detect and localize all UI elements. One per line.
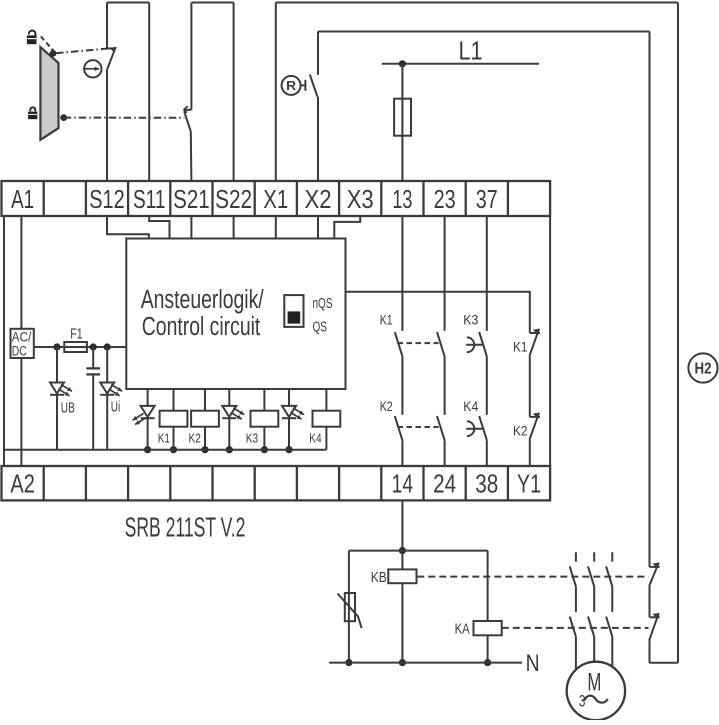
- svg-text:UB: UB: [61, 401, 75, 417]
- wire branch horizontal: [349, 550, 488, 552]
- varistor RV1: [338, 593, 362, 628]
- module outline right edge: [549, 216, 551, 466]
- svg-text:Ansteuerlogik/: Ansteuerlogik/: [141, 286, 265, 314]
- svg-text:L1: L1: [459, 38, 483, 66]
- wire S22: [233, 3, 235, 182]
- contact KB phase 1 (NO): [570, 566, 576, 586]
- contactor coil KA: [474, 621, 502, 635]
- junction L1/fuse: [399, 60, 406, 67]
- svg-text:K1: K1: [513, 339, 528, 355]
- contact KB phase 2 (NO): [588, 566, 594, 586]
- contact K2 (NC feedback): [530, 413, 541, 440]
- contactor coil KB: [388, 569, 416, 583]
- label K4: [463, 398, 478, 414]
- guard door (movable gate, grey panel): [40, 47, 58, 140]
- label K3: [463, 312, 478, 328]
- wire KA upper lead: [487, 551, 489, 621]
- switch R contact arm: [310, 75, 318, 97]
- wire logic box to coil K3: [263, 389, 265, 411]
- svg-text:AC/: AC/: [12, 330, 32, 345]
- svg-text:X3: X3: [347, 184, 374, 214]
- wire KB to N rail: [401, 583, 403, 662]
- wire S21-S22 top loop: [191, 2, 233, 4]
- wire capacitor to 0V rail: [92, 374, 94, 449]
- wire LED to 0V rail at x=147.6: [147, 418, 149, 450]
- wire KB upper lead: [401, 551, 403, 570]
- svg-text:14: 14: [392, 469, 414, 499]
- wire phase 3 between contacts: [611, 586, 613, 612]
- wire between contacts column 37: [486, 356, 488, 415]
- wire inner loop right side (to KB aux contact): [649, 32, 651, 567]
- actuator direction symbol (circled arrow): [84, 60, 102, 77]
- door hinge point bottom: [60, 114, 67, 121]
- svg-text:K1: K1: [158, 431, 170, 446]
- label UB: [61, 401, 75, 417]
- junction UB branch: [53, 343, 60, 350]
- wire fuse through lead: [401, 99, 403, 181]
- relay coil K3: [251, 411, 279, 427]
- label K1: [380, 312, 393, 328]
- svg-text:K4: K4: [463, 398, 478, 414]
- wire Ui to 0V rail: [106, 395, 108, 450]
- linkage dash-dot (door to S21 switch): [64, 117, 185, 119]
- svg-text:nQS: nQS: [313, 295, 333, 312]
- wire LED to 0V rail at x=289.0: [288, 418, 290, 450]
- wire outer loop top (X1 to right side): [276, 2, 678, 4]
- wire logic box to coil K1: [173, 389, 175, 411]
- switch S21 (door NO contact): [184, 106, 192, 131]
- svg-text:KA: KA: [455, 621, 470, 637]
- wire outer loop right side: [677, 3, 679, 663]
- svg-text:3: 3: [579, 692, 586, 710]
- wire K2 NC to terminal Y1: [529, 440, 531, 466]
- wire S12-S11 top loop: [107, 2, 149, 4]
- svg-text:F1: F1: [70, 327, 83, 343]
- contact KB auxiliary (NC, H2 line): [649, 563, 660, 586]
- svg-text:K4: K4: [309, 431, 321, 446]
- terminal strip bottom (A2 14 24 38 Y1): [2, 466, 551, 500]
- label KB: [371, 570, 387, 586]
- wire logic box to LED at x=147.6: [147, 389, 149, 406]
- label Control circuit: [142, 313, 260, 341]
- label 3: [579, 692, 586, 710]
- door hinge point top: [50, 50, 57, 57]
- contact KA auxiliary (NC, H2 line): [649, 613, 660, 640]
- label K2: [380, 398, 393, 414]
- LED indicator at x=147.6: [133, 406, 155, 425]
- padlock (open) top-left: [27, 30, 37, 44]
- capacitor C1: [86, 368, 100, 374]
- wire between contacts column 13: [401, 356, 403, 415]
- wire KA aux down: [649, 640, 651, 663]
- junction K1/0V: [170, 446, 177, 453]
- wire S21 lower lead: [190, 132, 193, 182]
- svg-text:K2: K2: [513, 422, 528, 438]
- junction LED/0V at x=147.6: [144, 446, 151, 453]
- linkage dashes KB: [417, 576, 648, 578]
- net label N: [526, 650, 540, 677]
- wire X2 lower lead: [317, 97, 319, 181]
- wire inner loop top (X2 to right side): [318, 31, 650, 33]
- wire phase 2 between contacts: [593, 586, 595, 612]
- contact (NO) upper in column 23: [437, 332, 445, 356]
- contact K2 (NO) lower in column 13: [395, 416, 403, 440]
- wire between contacts column 23: [444, 356, 446, 415]
- svg-text:24: 24: [433, 469, 456, 499]
- padlock (closed) bottom-left: [28, 107, 37, 119]
- svg-text:S22: S22: [215, 184, 252, 214]
- wire bottom right corner: [650, 662, 679, 664]
- fuse F1: [64, 342, 87, 352]
- wire logic box to coil K2: [204, 389, 206, 411]
- wire phase 1 between contacts: [575, 586, 577, 612]
- wire Ui lead: [106, 347, 108, 383]
- svg-text:13: 13: [392, 184, 412, 214]
- svg-text:X2: X2: [305, 184, 332, 214]
- wire contact to terminal 14: [401, 440, 403, 466]
- label Ui: [111, 400, 121, 416]
- linkage dashes KA: [502, 627, 649, 629]
- svg-text:A2: A2: [10, 469, 35, 499]
- linkage dash-dot (door to S12 switch): [56, 48, 112, 53]
- 0V rail inside module: [4, 449, 326, 451]
- label M: [587, 669, 601, 697]
- junction LED/0V at x=289.0: [285, 446, 292, 453]
- svg-text:K3: K3: [246, 431, 258, 446]
- wire LED to 0V rail at x=229.3: [228, 418, 230, 450]
- wire phase L2 supply stub: [593, 552, 595, 561]
- label K1 (NC): [513, 339, 528, 355]
- wire X2 to logic box: [317, 216, 319, 239]
- wire X1 to logic box: [275, 216, 277, 239]
- wire X3 to logic box (jog): [334, 216, 360, 239]
- junction varistor/N: [345, 659, 352, 666]
- wire UB lead: [56, 347, 58, 383]
- label F1: [70, 327, 83, 343]
- wire phase L3 supply stub: [611, 552, 613, 561]
- wire KA to N rail: [487, 635, 489, 662]
- svg-text:23: 23: [434, 184, 456, 214]
- junction Ui branch: [104, 343, 111, 350]
- label ~ (AC wave): [584, 696, 608, 703]
- svg-text:S21: S21: [173, 184, 210, 214]
- wire K1 to 0V rail: [173, 427, 175, 450]
- forced guidance arc upper (K3): [466, 337, 482, 352]
- label AC/: [12, 330, 32, 345]
- wire DC supply (AC/DC to logic box): [34, 346, 127, 348]
- linkage dash (padlock to hinge): [41, 36, 54, 51]
- svg-text:K3: K3: [463, 312, 478, 328]
- wire logic box to LED at x=229.3: [228, 389, 230, 406]
- module type label SRB 211ST V.2: [125, 512, 246, 543]
- wire contact to terminal 38: [486, 440, 488, 466]
- contact K1 (NO) upper in column 13: [395, 332, 403, 356]
- net label L1: [459, 38, 483, 66]
- wire capacitor lead: [92, 347, 94, 368]
- contact K4 (NO) lower in column 37: [479, 416, 487, 440]
- LED Ui: [100, 383, 122, 396]
- wire S12 to logic box (jog): [107, 216, 149, 239]
- wire S22 to logic box: [233, 216, 235, 239]
- svg-text:Y1: Y1: [517, 469, 541, 499]
- linkage dashes K1 contacts: [398, 342, 439, 344]
- relay coil K1: [160, 411, 188, 427]
- contact KA phase 1 (NO): [570, 617, 576, 637]
- svg-text:SRB 211ST V.2: SRB 211ST V.2: [125, 512, 246, 543]
- forced guidance arc lower (K4): [466, 421, 482, 436]
- svg-text:R: R: [286, 79, 296, 93]
- svg-text:S12: S12: [89, 184, 125, 214]
- label nQS: [313, 295, 333, 312]
- wire phase L1 supply stub: [575, 552, 577, 561]
- wire UB to 0V rail: [56, 395, 58, 450]
- motor M 3~: [567, 662, 625, 720]
- label KA: [455, 621, 470, 637]
- LED indicator at x=229.3: [222, 406, 244, 419]
- label K2 (NC): [513, 422, 528, 438]
- control logic box: [126, 239, 345, 390]
- svg-text:H2: H2: [695, 360, 712, 377]
- svg-text:QS: QS: [313, 318, 328, 335]
- wire terminal 23 down: [444, 216, 446, 331]
- wire L1 supply line: [382, 63, 539, 65]
- wire phase 3 to motor: [611, 637, 613, 667]
- wire S11: [148, 3, 150, 182]
- wire S11 to logic box (jog): [149, 216, 169, 239]
- junction KA/N: [484, 659, 491, 666]
- wire logic box to LED at x=289.0: [288, 389, 290, 406]
- junction capacitor branch: [90, 343, 97, 350]
- wire between auxiliary contacts: [649, 586, 651, 617]
- reset button plunger: [301, 80, 306, 91]
- relay coil K4: [313, 411, 341, 427]
- terminal strip top (A1 S12 S11 S21 S22 X1 X2 X3 13 23 37): [2, 181, 551, 216]
- wire between NC contacts: [529, 356, 531, 417]
- indicator lamp H2: [688, 353, 717, 382]
- contact KB phase 3 (NO): [606, 566, 612, 586]
- wire X1 to outer loop: [275, 3, 277, 182]
- svg-text:K2: K2: [380, 398, 393, 414]
- wire S21 upper lead: [190, 3, 192, 110]
- svg-text:K1: K1: [380, 312, 393, 328]
- wire logic box to K1 NC contact: [346, 292, 530, 333]
- label K4: [309, 431, 321, 446]
- LED UB: [50, 383, 72, 396]
- svg-text:S11: S11: [133, 184, 166, 214]
- reset button R (circle with R): [282, 76, 301, 95]
- AC/DC converter U1: [11, 329, 34, 358]
- wire S21 to logic box: [190, 216, 192, 239]
- svg-text:M: M: [587, 669, 601, 697]
- wire terminal 37 down: [486, 216, 488, 331]
- label K3: [246, 431, 258, 446]
- LED indicator at x=289.0: [282, 406, 304, 419]
- wire A1 to AC/DC converter: [20, 216, 22, 329]
- N rail: [329, 662, 522, 664]
- relay coil K2: [191, 411, 219, 427]
- svg-text:DC: DC: [12, 343, 27, 358]
- wire A2 from AC/DC converter: [20, 358, 22, 466]
- label K1: [158, 431, 170, 446]
- contact KA phase 2 (NO): [588, 617, 594, 637]
- linkage dashes K2 contacts: [398, 426, 439, 428]
- fuse F (line fuse): [394, 99, 411, 136]
- svg-text:X1: X1: [263, 184, 288, 214]
- wire phase 2 to motor: [593, 637, 595, 662]
- QS state indicator (toggle): [284, 295, 303, 327]
- wire phase 1 to motor: [575, 637, 577, 670]
- svg-text:38: 38: [475, 469, 498, 499]
- svg-text:KB: KB: [371, 570, 387, 586]
- wire X2 upper lead: [317, 32, 319, 75]
- svg-text:A1: A1: [11, 184, 34, 214]
- label QS: [313, 318, 328, 335]
- label DC: [12, 343, 27, 358]
- junction LED/0V at x=229.3: [226, 446, 233, 453]
- wire K3 to 0V rail: [263, 427, 265, 450]
- svg-text:Ui: Ui: [111, 400, 121, 416]
- wire S12 upper lead: [106, 3, 108, 49]
- wire terminal 13 down: [401, 216, 403, 331]
- contact KA phase 3 (NO): [606, 617, 612, 637]
- wire terminal 14 down: [401, 500, 403, 550]
- junction K3/0V: [261, 446, 268, 453]
- label Ansteuerlogik/: [141, 286, 265, 314]
- wire logic box to coil K4: [325, 389, 327, 411]
- wire varistor upper lead: [348, 551, 350, 663]
- wire K2 to 0V rail: [204, 427, 206, 450]
- switch S12 (door NC contact): [107, 47, 116, 70]
- svg-text:K2: K2: [189, 431, 201, 446]
- wire S12 lower lead: [106, 70, 108, 181]
- contact (NO) lower in column 23: [437, 416, 445, 440]
- wire fuse upper lead: [401, 64, 403, 99]
- label K2: [189, 431, 201, 446]
- junction K2/0V: [201, 446, 208, 453]
- junction KB/N: [399, 659, 406, 666]
- svg-text:N: N: [526, 650, 540, 677]
- junction 14 branch: [399, 547, 406, 554]
- svg-text:Control circuit: Control circuit: [142, 313, 260, 341]
- contact K1 (NC feedback): [530, 329, 541, 356]
- wire contact to terminal 24: [444, 440, 446, 466]
- wire K4 to 0V rail end: [325, 427, 327, 450]
- contact K3 (NO) upper in column 37: [479, 332, 487, 356]
- svg-text:37: 37: [476, 184, 498, 214]
- module outline left edge: [3, 216, 5, 466]
